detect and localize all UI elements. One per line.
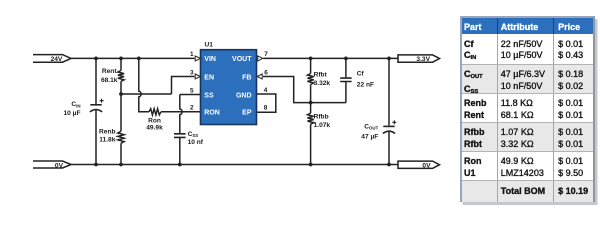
svg-text:7: 7 bbox=[264, 51, 268, 58]
pin 3 arrow bbox=[195, 74, 200, 79]
svg-text:VIN: VIN bbox=[204, 56, 216, 63]
BOM table bbox=[460, 16, 595, 202]
resistor Rfbt bbox=[308, 58, 314, 102]
svg-text:11.8k: 11.8k bbox=[99, 136, 115, 143]
junction CIN/VIN rail bbox=[94, 57, 98, 61]
wire Ron to RON pin 2 bbox=[161, 111, 201, 113]
svg-text:EN: EN bbox=[204, 74, 214, 81]
capacitor Cf bbox=[345, 58, 347, 77]
capacitor Css bbox=[174, 134, 186, 138]
junction FB node bbox=[309, 101, 313, 105]
svg-text:FB: FB bbox=[242, 74, 251, 81]
svg-text:10 µF: 10 µF bbox=[64, 110, 81, 117]
svg-text:47 µF: 47 µF bbox=[361, 134, 378, 141]
svg-text:1: 1 bbox=[190, 51, 194, 58]
wire 0V rail bbox=[71, 164, 398, 166]
3.3V output flag bbox=[398, 55, 440, 62]
svg-text:3: 3 bbox=[190, 69, 194, 76]
resistor Rfbb bbox=[308, 103, 314, 165]
svg-text:5: 5 bbox=[190, 87, 194, 94]
svg-text:CSS: CSS bbox=[188, 131, 199, 138]
resistor Ron bbox=[149, 109, 161, 115]
svg-text:24V: 24V bbox=[51, 56, 63, 63]
wire GND-EP loop bbox=[257, 94, 276, 112]
pin 7 arrow bbox=[258, 56, 263, 61]
wire VIN to Ron with hop over EN row bbox=[139, 58, 149, 111]
svg-text:COUT: COUT bbox=[364, 123, 378, 130]
pin 1 arrow bbox=[195, 56, 200, 61]
junction EN divider node bbox=[119, 92, 123, 96]
junction Cf/VOUT rail bbox=[344, 57, 348, 61]
junction CIN/0V rail bbox=[94, 163, 98, 167]
wire VOUT rail bbox=[263, 57, 398, 59]
svg-text:0V: 0V bbox=[55, 162, 64, 169]
wire EN divider row bbox=[121, 93, 172, 95]
svg-text:SS: SS bbox=[204, 92, 214, 99]
capacitor Cout bbox=[388, 58, 390, 125]
svg-text:1.07k: 1.07k bbox=[314, 122, 331, 129]
junction Ron branch/VIN rail bbox=[137, 57, 141, 61]
wire 24V rail to VIN bbox=[71, 57, 195, 59]
wire Css to 0V rail bbox=[179, 137, 181, 164]
wire CIN to 0V rail bbox=[95, 110, 97, 164]
svg-text:EP: EP bbox=[242, 110, 252, 117]
svg-text:3.32k: 3.32k bbox=[314, 80, 331, 87]
pin 6 arrow bbox=[257, 74, 262, 79]
svg-text:Rfbt: Rfbt bbox=[314, 71, 328, 78]
svg-text:8: 8 bbox=[264, 105, 268, 112]
0V right flag bbox=[398, 161, 440, 168]
resistor Renb bbox=[118, 94, 124, 165]
CIN plus sign bbox=[100, 99, 104, 103]
svg-text:68.1k: 68.1k bbox=[101, 77, 118, 84]
junction Rent/VIN rail bbox=[119, 57, 123, 61]
svg-text:RON: RON bbox=[204, 110, 220, 117]
wire EN riser and row to pin 3 bbox=[172, 77, 195, 95]
svg-text:GND: GND bbox=[236, 92, 252, 99]
svg-text:3.3V: 3.3V bbox=[416, 56, 430, 63]
svg-text:10 nf: 10 nf bbox=[188, 139, 204, 146]
svg-text:CIN: CIN bbox=[71, 101, 80, 108]
junction Cout/0V rail bbox=[387, 163, 391, 167]
svg-text:Ron: Ron bbox=[148, 118, 161, 125]
wire SS row bbox=[180, 94, 201, 96]
svg-text:Cf: Cf bbox=[357, 71, 365, 78]
svg-text:Rfbb: Rfbb bbox=[314, 113, 329, 120]
junction Rfbb/0V rail bbox=[309, 163, 313, 167]
junction Cout/VOUT rail bbox=[387, 57, 391, 61]
junction Renb/0V rail bbox=[119, 163, 123, 167]
svg-text:0V: 0V bbox=[422, 162, 431, 169]
svg-text:VOUT: VOUT bbox=[232, 56, 252, 63]
svg-text:Renb: Renb bbox=[99, 128, 115, 135]
svg-text:4: 4 bbox=[264, 87, 268, 94]
svg-text:Rent: Rent bbox=[102, 68, 117, 75]
svg-text:2: 2 bbox=[190, 105, 194, 112]
junction Rfbt/VOUT rail bbox=[309, 57, 313, 61]
resistor Rent bbox=[118, 58, 124, 94]
svg-text:U1: U1 bbox=[205, 41, 214, 48]
svg-text:49.9k: 49.9k bbox=[146, 125, 163, 132]
0V left flag bbox=[33, 161, 71, 168]
wire CIN branch upper bbox=[95, 58, 97, 104]
wire FB net bbox=[263, 77, 346, 103]
junction Css/0V rail bbox=[178, 163, 182, 167]
svg-text:22 nF: 22 nF bbox=[357, 82, 374, 89]
wire SS drop with hop over RON row bbox=[180, 95, 182, 134]
capacitor CIN bbox=[90, 105, 102, 112]
svg-text:6: 6 bbox=[264, 69, 268, 76]
24V input flag bbox=[33, 55, 71, 63]
op-amp U1 regulator body bbox=[201, 50, 257, 125]
